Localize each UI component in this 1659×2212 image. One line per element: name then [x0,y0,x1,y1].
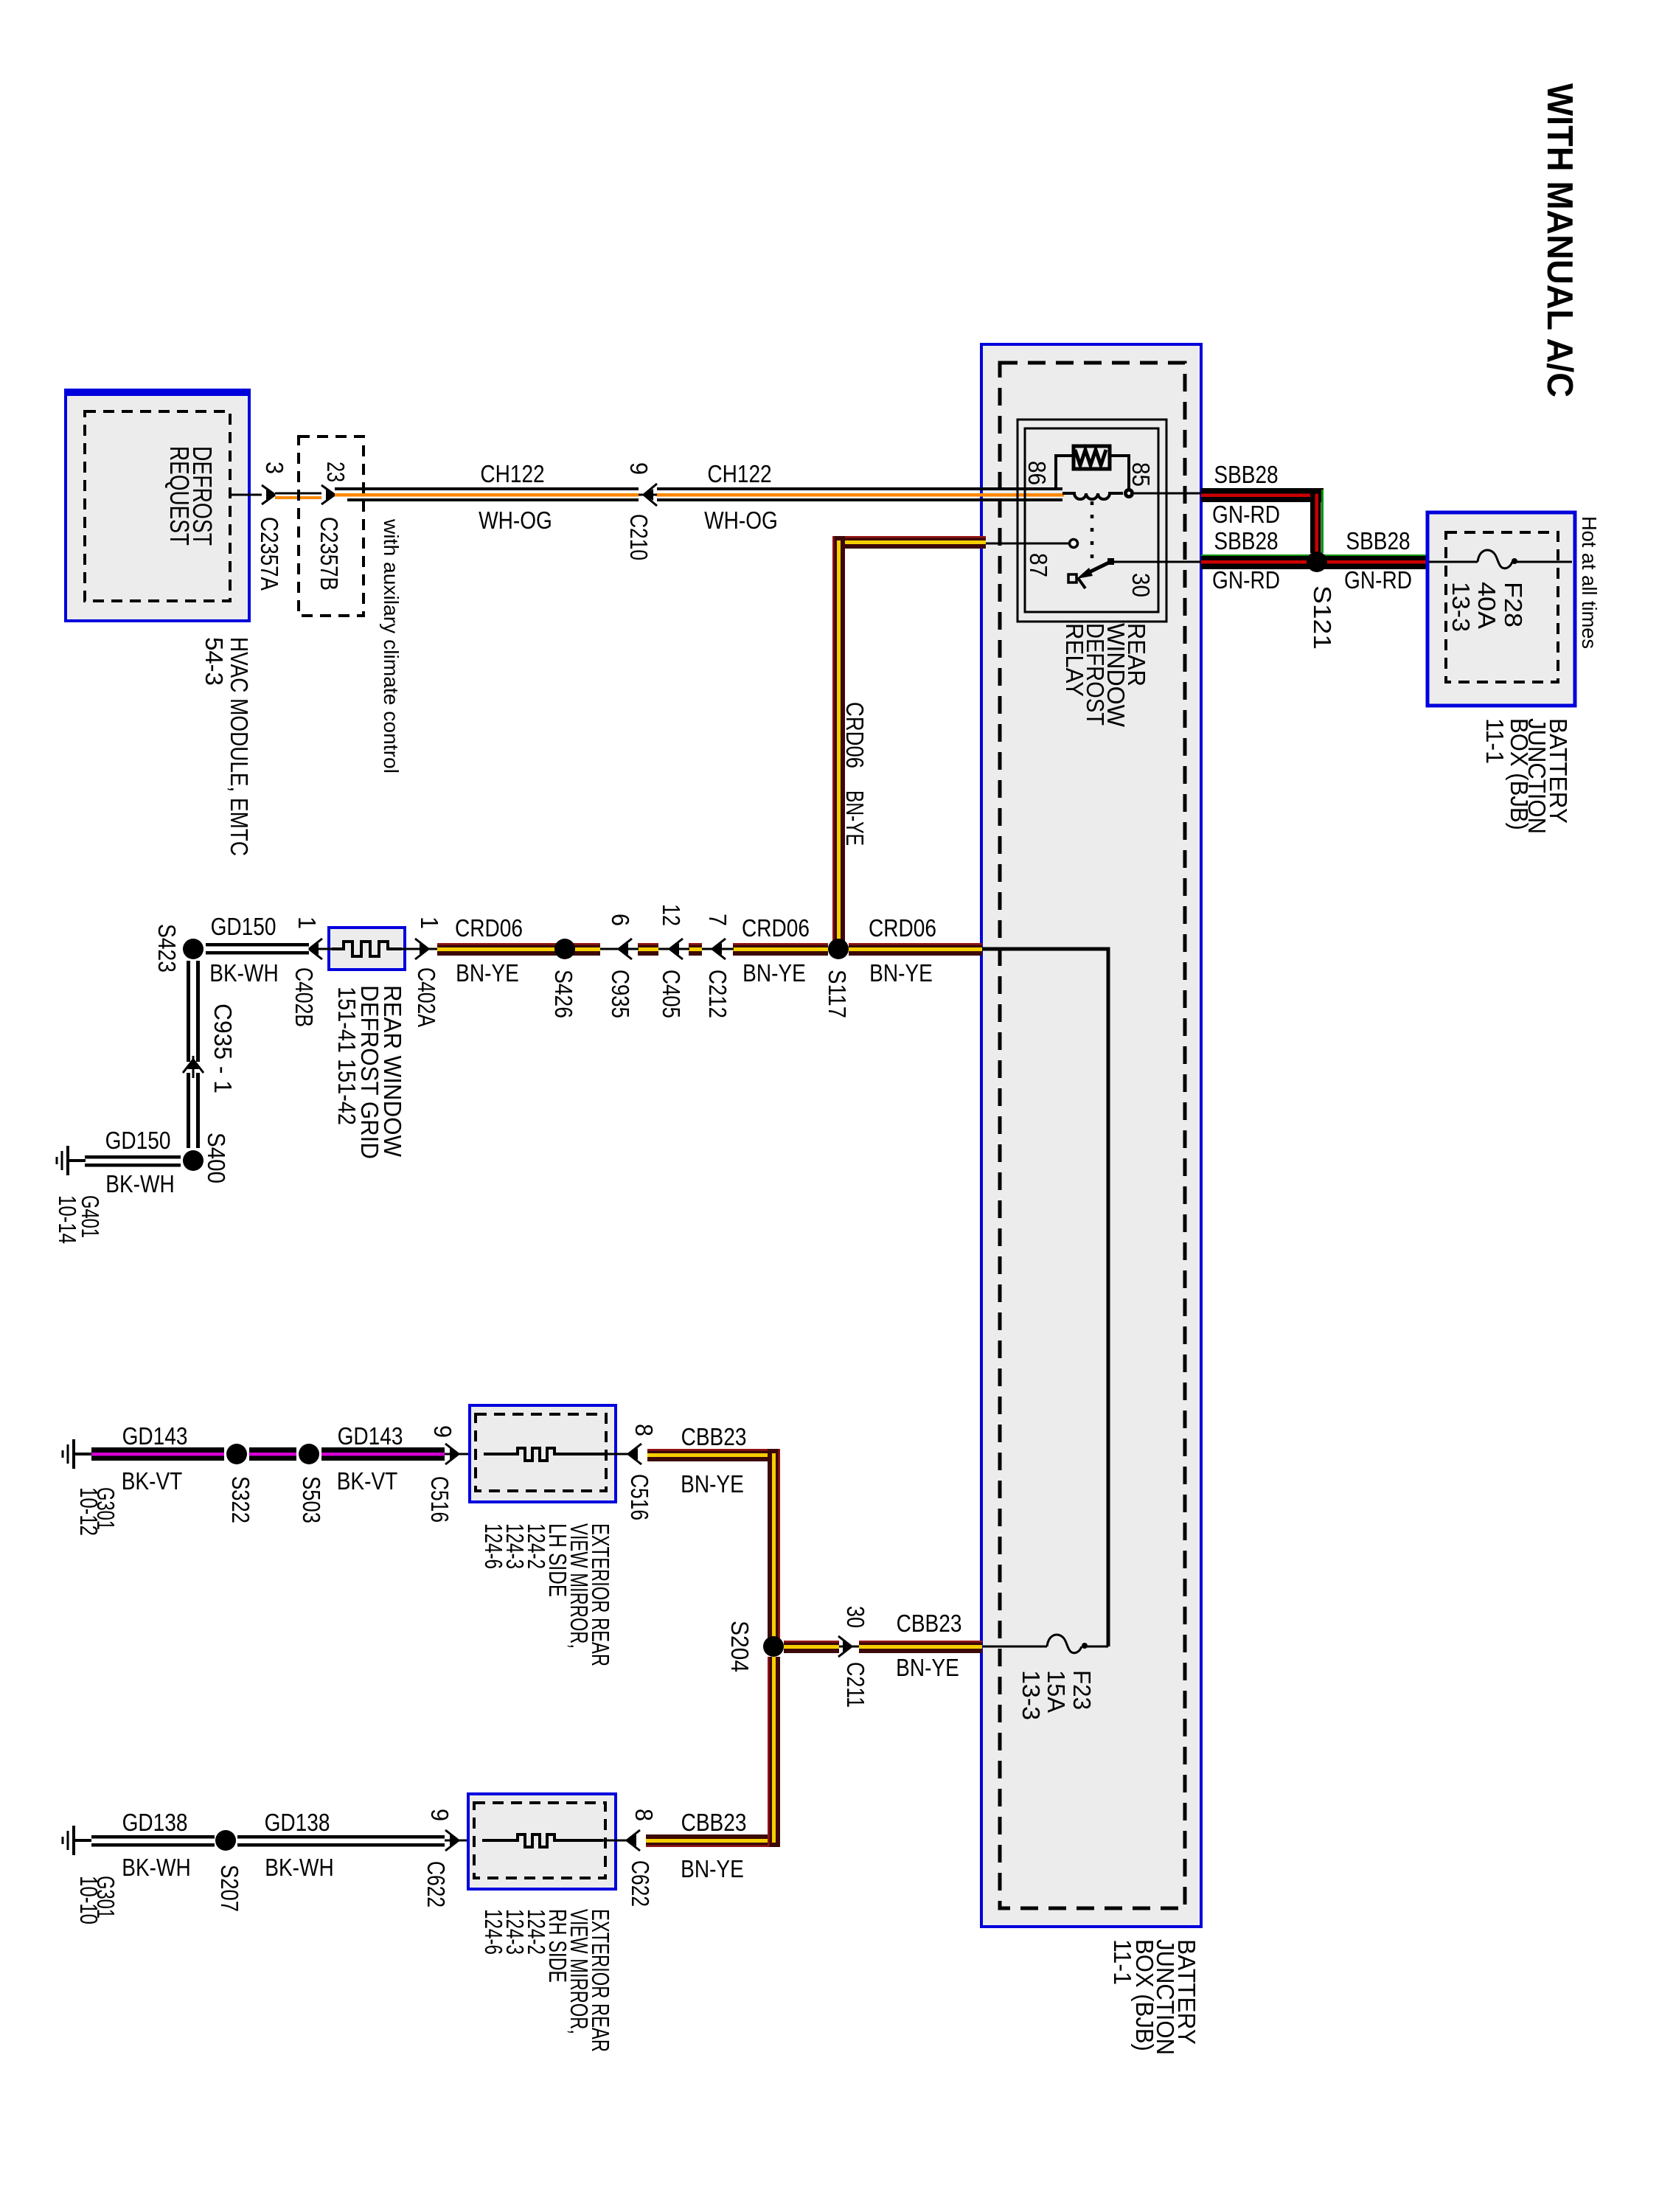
relay armature dotted link [1091,501,1094,558]
svg-text:BK-WH: BK-WH [265,1854,333,1882]
connector C2357A pin 3 arrow [262,485,275,504]
relay coil resistor element [1074,446,1110,469]
svg-text:F23: F23 [1068,1670,1096,1710]
HVAC module EMTC box [66,389,249,621]
svg-text:10-14: 10-14 [54,1195,81,1244]
svg-text:S207: S207 [216,1865,243,1912]
splice S121 [1307,552,1327,572]
svg-text:BN-YE: BN-YE [681,1856,744,1883]
svg-text:CH122: CH122 [480,461,544,488]
svg-text:GN-RD: GN-RD [1212,501,1280,529]
svg-text:30: 30 [1127,573,1155,597]
fuse F28 box (battery junction box) [1427,512,1575,706]
svg-text:GN-RD: GN-RD [1344,567,1412,594]
svg-text:CRD06: CRD06 [869,915,936,942]
svg-text:85: 85 [1127,462,1155,487]
svg-text:BN-YE: BN-YE [841,790,869,846]
pin 87 lead from box edge [986,543,1069,545]
svg-text:8: 8 [630,1809,658,1821]
svg-text:C405: C405 [658,970,685,1018]
connector C622 pin 8 arrow (right) [627,1830,640,1851]
rear window defrost relay outline [1018,420,1166,622]
svg-text:6: 6 [607,914,634,926]
svg-text:S322: S322 [227,1476,254,1523]
defrost grid element [332,942,402,956]
svg-text:RELAY: RELAY [1061,623,1088,697]
svg-text:CRD06: CRD06 [455,915,523,942]
svg-text:GD143: GD143 [122,1423,188,1450]
svg-text:S426: S426 [550,970,577,1018]
svg-text:WH-OG: WH-OG [704,507,778,535]
svg-text:C935 - 1: C935 - 1 [209,1004,237,1093]
svg-text:BK-WH: BK-WH [122,1854,190,1882]
svg-text:GD143: GD143 [338,1423,403,1450]
svg-text:S204: S204 [726,1621,754,1672]
svg-text:C212: C212 [704,970,731,1018]
svg-text:3: 3 [261,462,288,474]
splice S423 [183,939,204,959]
pin 85 terminal dot [1124,488,1134,498]
svg-text:C622: C622 [627,1860,654,1907]
connector C2357B dashed box [299,437,364,616]
connector C212 pin 7 arrow [702,948,734,950]
svg-text:86: 86 [1023,461,1051,485]
wire C935-1 vertical (BK-WH) [187,961,200,1148]
svg-text:GD138: GD138 [265,1809,330,1837]
fuse F23 element [983,1646,1047,1648]
pin 30 lead to box edge [1113,561,1201,563]
relay switch arm [1068,558,1114,588]
wire CH122 WH-OG from C210 to relay coil [657,487,1064,501]
splice S207 [215,1830,236,1851]
svg-text:1: 1 [416,917,443,929]
svg-text:BN-YE: BN-YE [456,960,519,987]
svg-text:10-12: 10-12 [75,1487,102,1536]
wire CH122 WH-OG from C2357B to C210 [335,487,639,501]
wire CBB23 BN-YE from C211 to BJB [859,1641,982,1653]
wire C2357A to C2357B (orange) [275,493,321,495]
splice S503 [299,1444,319,1464]
ground G401 [57,1146,86,1175]
svg-text:SBB28: SBB28 [1214,462,1278,489]
svg-text:S400: S400 [203,1133,230,1183]
svg-text:BN-YE: BN-YE [742,960,806,987]
svg-text:87: 87 [1025,553,1052,577]
svg-text:F28: F28 [1500,582,1527,627]
battery junction box (BJB) [981,344,1201,1927]
svg-text:10-10: 10-10 [75,1876,102,1924]
svg-text:S423: S423 [153,924,181,973]
wire GD138 BK-WH from S207 to C622 [237,1835,445,1847]
svg-text:REQUEST: REQUEST [164,446,195,546]
svg-text:BOX (BJB): BOX (BJB) [1506,718,1533,830]
wire GD143 BK-VT from S322 to S503 [249,1447,296,1461]
svg-text:CRD06: CRD06 [742,915,810,942]
connector C622 pin 9 arrow [445,1840,470,1842]
splice S117 [828,939,849,959]
svg-text:15A: 15A [1043,1670,1070,1713]
connector C402A pin 1 arrow (right) [402,948,437,950]
svg-text:HVAC MODULE, EMTC: HVAC MODULE, EMTC [226,637,253,856]
wire CRD06 BN-YE from relay 87 down to S117 [832,536,986,949]
svg-text:BN-YE: BN-YE [869,960,933,987]
wire CRD06 BN-YE from S117 to BJB [849,943,982,956]
svg-text:BK-WH: BK-WH [209,960,278,987]
exterior rear view mirror RH box [468,1794,616,1889]
splice S426 [554,939,575,959]
svg-text:S503: S503 [298,1476,325,1523]
svg-text:S121: S121 [1309,585,1336,650]
svg-text:C516: C516 [426,1476,453,1523]
svg-text:CBB23: CBB23 [897,1610,962,1638]
connector C405 pin 12 arrow [658,948,689,950]
svg-text:SBB28: SBB28 [1346,528,1410,555]
svg-text:8: 8 [630,1424,658,1436]
wire GD150 BK-WH from G401 to S400 [85,1155,181,1167]
ground G301 (RH) [63,1826,91,1855]
connector C211 pin 30 arrow [839,1646,863,1648]
svg-text:BK-VT: BK-VT [337,1468,398,1495]
svg-text:GD150: GD150 [105,1127,171,1155]
svg-text:GN-RD: GN-RD [1212,567,1280,594]
svg-text:C935: C935 [607,970,634,1018]
wire GD138 BK-WH from G301 to S207 [91,1835,215,1847]
svg-text:7: 7 [704,914,731,926]
splice S400 [183,1150,204,1171]
connector C935-1 arrow (up) [192,1056,195,1078]
connector C402B pin 1 arrow (left) [309,948,332,950]
ground G301 (LH) [63,1439,91,1469]
wire CBB23 BN-YE from C516 to S204 (L-shape) [647,1449,780,1646]
svg-text:WH-OG: WH-OG [479,507,552,535]
svg-text:11-1: 11-1 [1481,718,1509,764]
wire GD150 BK-WH from S423 to C402B [206,943,309,955]
wire SBB28 GN-RD from relay 85 to S121 (L-shape) [1201,488,1324,553]
connector C935 pin 6 arrow [600,948,639,950]
svg-text:SBB28: SBB28 [1214,528,1278,555]
svg-text:Hot at all times: Hot at all times [1578,516,1601,649]
wire SBB28 GN-RD from relay 30 through S121 to F28 [1201,554,1427,569]
svg-text:BK-WH: BK-WH [105,1171,174,1198]
relay coil (inductor) pin 86 to 85 [1062,493,1123,499]
svg-text:9: 9 [426,1809,453,1821]
svg-text:CBB23: CBB23 [681,1809,747,1837]
connector C516 pin 8 arrow (right) [628,1444,641,1464]
svg-text:40A: 40A [1473,582,1500,629]
connector C516 pin 9 arrow [445,1453,472,1455]
svg-text:S117: S117 [824,970,851,1018]
svg-text:BN-YE: BN-YE [681,1471,744,1498]
svg-text:C622: C622 [422,1861,450,1907]
wire CRD06 BN-YE from C402A to S117 with inline connectors [437,943,828,956]
svg-text:C516: C516 [626,1474,653,1520]
splice S204 [763,1636,784,1657]
wire GD143 BK-VT from G301 to S322 [91,1447,224,1461]
svg-text:C2357A: C2357A [256,517,283,591]
svg-text:C2357B: C2357B [316,517,343,591]
splice S322 [226,1444,247,1464]
svg-text:C402A: C402A [413,967,440,1027]
svg-text:CRD06: CRD06 [841,702,869,768]
rear window defrost grid box [329,928,405,970]
svg-text:124-6: 124-6 [480,1909,507,1955]
RH mirror heater element [482,1834,603,1847]
svg-text:CBB23: CBB23 [681,1424,747,1451]
svg-text:151-41 151-42: 151-41 151-42 [333,987,361,1125]
connector C210 pin 9 arrow [644,484,657,506]
wire from HVAC module to C2357A [230,494,262,496]
svg-text:30: 30 [842,1606,869,1628]
BJB internal feed line to fuse F23 [982,949,1108,1646]
svg-text:BK-VT: BK-VT [122,1468,183,1495]
svg-text:C211: C211 [842,1662,869,1708]
svg-text:9: 9 [625,462,653,475]
wire GD143 BK-VT from S503 to C516 [321,1447,445,1461]
svg-text:CH122: CH122 [707,461,771,488]
pin 87 terminal circle [1070,540,1078,548]
svg-text:GD150: GD150 [211,914,276,941]
svg-text:GD138: GD138 [122,1809,188,1837]
resistor parallel stubs [1056,456,1074,489]
svg-text:12: 12 [658,904,685,926]
LH mirror heater element [484,1448,605,1461]
svg-text:9: 9 [429,1425,456,1438]
svg-text:WITH MANUAL A/C: WITH MANUAL A/C [1540,83,1579,397]
svg-text:C210: C210 [625,514,653,560]
exterior rear view mirror LH box [470,1405,616,1502]
svg-text:1: 1 [293,917,321,929]
fuse F28 element [1429,561,1478,563]
svg-text:11-1: 11-1 [1109,1939,1136,1985]
svg-text:with auxilary climate control: with auxilary climate control [380,518,403,773]
svg-text:124-6: 124-6 [480,1523,507,1569]
wire CBB23 BN-YE from S204 to C211 [784,1641,839,1653]
pin 85 lead to box edge [1134,493,1201,495]
wire CBB23 BN-YE from C622 to S204 (L-shape) [646,1657,780,1847]
svg-text:13-3: 13-3 [1018,1670,1045,1720]
connector C2357B pin 23 arrow [321,485,335,504]
svg-text:54-3: 54-3 [201,637,228,686]
svg-text:C402B: C402B [291,967,318,1027]
svg-text:BN-YE: BN-YE [896,1655,959,1682]
svg-text:13-3: 13-3 [1447,582,1475,632]
svg-text:23: 23 [322,462,349,482]
